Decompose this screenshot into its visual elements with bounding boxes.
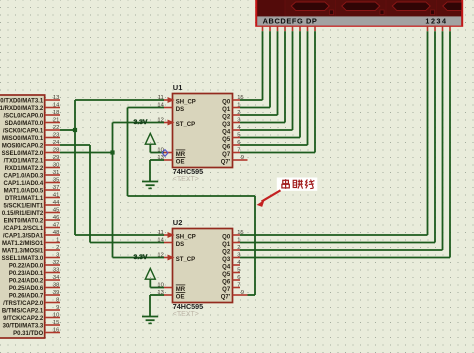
wire: ground to U1 OE pin 13 bbox=[150, 159, 164, 161]
wire: vertical down to U2 DS bbox=[89, 145, 91, 243]
svg-text:46: 46 bbox=[53, 215, 59, 221]
svg-text:/CAP1.3/SDA1: /CAP1.3/SDA1 bbox=[3, 233, 44, 239]
junction: ST_CP net bbox=[110, 150, 114, 154]
wire: 3.3V to U1 MR pin 10 bbox=[150, 152, 164, 154]
svg-text:3: 3 bbox=[237, 117, 240, 123]
wire: cascade horizontal at y=196 bbox=[128, 195, 256, 197]
svg-text:EINT0/MAT0.2: EINT0/MAT0.2 bbox=[4, 218, 44, 224]
svg-text:MISO0/MAT0.1: MISO0/MAT0.1 bbox=[2, 136, 44, 142]
wire: MCU pin 28 to ST_CP junction bbox=[60, 152, 113, 154]
svg-text:<TEXT>: <TEXT> bbox=[173, 311, 199, 318]
svg-text:1/RXD0/MAT3.2: 1/RXD0/MAT3.2 bbox=[0, 106, 44, 112]
wire: to U2 DS pin 14 bbox=[90, 242, 164, 244]
svg-text:31: 31 bbox=[53, 170, 59, 176]
wire: ST_CP vertical bus bbox=[112, 123, 114, 258]
wire: U1 Q7 to display segment pin bbox=[240, 31, 315, 152]
svg-text:5/SCK1/EINT1: 5/SCK1/EINT1 bbox=[4, 203, 44, 209]
svg-text:44: 44 bbox=[53, 200, 60, 206]
svg-text:2: 2 bbox=[56, 245, 59, 251]
svg-text:ST_CP: ST_CP bbox=[176, 257, 195, 263]
svg-text:7: 7 bbox=[237, 282, 240, 288]
svg-text:<TEXT>: <TEXT> bbox=[173, 176, 199, 183]
svg-text:MOSI0/CAP0.2: MOSI0/CAP0.2 bbox=[2, 143, 44, 149]
svg-text:74HC595: 74HC595 bbox=[173, 167, 203, 176]
wire: SH_CP vertical bus bbox=[74, 100, 76, 235]
U2 right pin names Q0..Q7 bbox=[221, 234, 231, 300]
svg-text:/TRST/CAP2.0: /TRST/CAP2.0 bbox=[3, 301, 44, 307]
blue marker on U1 MR pin bbox=[162, 150, 168, 157]
wire: U1 Q2 to display segment pin bbox=[240, 31, 278, 115]
svg-text:Q6: Q6 bbox=[222, 279, 231, 285]
shift register U2 74HC595 bbox=[173, 218, 233, 318]
MCU pin numbers 13,14,18,21,22,23,24,28,29,30,31,35,37,41,44,45,46,47,48,1,2,3,32,33,34,38,39,8,9,10,15,16 bbox=[53, 95, 60, 334]
wire: U1 Q6 to display segment pin bbox=[240, 31, 308, 145]
svg-text:Q3: Q3 bbox=[222, 257, 231, 263]
annotation label (chuan lian xian / series line) on white box bbox=[277, 178, 318, 191]
wire: U1 Q0 to display segment pin bbox=[240, 31, 263, 100]
wire: U1 DS pin 14 leftward (cascade net) bbox=[128, 107, 165, 109]
svg-text:3.3V: 3.3V bbox=[134, 254, 148, 261]
wire: cascade vertical at x=127.5 bbox=[127, 108, 129, 197]
svg-text:13: 13 bbox=[53, 95, 59, 101]
svg-text:33: 33 bbox=[53, 268, 59, 274]
wire: cascade to U2 Q7apos pin 9 bbox=[248, 294, 256, 296]
svg-text:SH_CP: SH_CP bbox=[176, 234, 196, 240]
svg-text:1234: 1234 bbox=[425, 17, 447, 26]
svg-text:6: 6 bbox=[237, 140, 240, 146]
MCU pin stubs (right side) bbox=[45, 100, 60, 333]
svg-text:DS: DS bbox=[176, 107, 184, 113]
ground symbol at U1 OE bbox=[142, 160, 158, 188]
svg-text:30/TDI/MAT3.3: 30/TDI/MAT3.3 bbox=[3, 323, 44, 329]
svg-text:Q6: Q6 bbox=[222, 144, 231, 150]
svg-text:MAT1.2/MISO1: MAT1.2/MISO1 bbox=[2, 241, 44, 247]
svg-text:Q7': Q7' bbox=[221, 294, 231, 300]
svg-text:OE: OE bbox=[176, 159, 185, 165]
U2 right pin stubs Q0-Q7, Q7apos bbox=[233, 235, 248, 295]
svg-text:39: 39 bbox=[53, 290, 59, 296]
svg-text:0.15/RI1/EINT2: 0.15/RI1/EINT2 bbox=[2, 211, 44, 217]
wire: cascade vertical at x=255 bbox=[254, 196, 256, 295]
wire: U1 Q3 to display segment pin bbox=[240, 31, 285, 122]
svg-text:Q2: Q2 bbox=[222, 249, 231, 255]
svg-text:47: 47 bbox=[53, 223, 59, 229]
svg-text:/SCL0/CAP0.0: /SCL0/CAP0.0 bbox=[4, 113, 44, 119]
U1 right pin stubs Q0-Q7, Q7apos bbox=[233, 100, 248, 160]
svg-text:DS: DS bbox=[176, 242, 184, 248]
svg-text:1: 1 bbox=[237, 102, 240, 108]
svg-text:74HC595: 74HC595 bbox=[173, 302, 203, 311]
svg-text:29: 29 bbox=[53, 155, 59, 161]
svg-text:9: 9 bbox=[241, 155, 244, 161]
display segment pin stubs A-G,DP bbox=[263, 26, 316, 31]
wire: MCU pin 24 rightward bbox=[60, 144, 90, 146]
svg-text:Q2: Q2 bbox=[222, 114, 231, 120]
svg-text:DTR1/MAT1.1: DTR1/MAT1.1 bbox=[5, 196, 44, 202]
U2 left pin numbers bbox=[157, 230, 164, 296]
svg-text:Q3: Q3 bbox=[222, 122, 231, 128]
wire: to U1 ST_CP pin 12 bbox=[113, 122, 165, 124]
wire: U2 Q0 to display digit pin bbox=[240, 31, 428, 235]
svg-text:0/TXD0/MAT3.1: 0/TXD0/MAT3.1 bbox=[0, 98, 44, 104]
MCU pin names (clipped at left edge) bbox=[0, 98, 44, 337]
svg-text:Q1: Q1 bbox=[222, 242, 231, 248]
svg-text:7: 7 bbox=[237, 147, 240, 153]
svg-text:32: 32 bbox=[53, 260, 59, 266]
svg-text:41: 41 bbox=[53, 193, 59, 199]
svg-text:Q0: Q0 bbox=[222, 99, 231, 105]
svg-text:2: 2 bbox=[237, 245, 240, 251]
svg-text:18: 18 bbox=[53, 110, 59, 116]
svg-text:OE: OE bbox=[176, 294, 185, 300]
svg-text:3: 3 bbox=[56, 253, 59, 259]
U1 left pin stubs 11,14,12,10,13 bbox=[164, 97, 175, 160]
svg-text:37: 37 bbox=[53, 185, 59, 191]
shift register U1 74HC595 bbox=[173, 83, 233, 183]
svg-text:9/TCK/CAP2.2: 9/TCK/CAP2.2 bbox=[3, 316, 44, 322]
svg-text:U2: U2 bbox=[173, 218, 183, 227]
svg-text:SH_CP: SH_CP bbox=[176, 99, 196, 105]
svg-text:Q7: Q7 bbox=[222, 287, 231, 293]
svg-text:CAP1.0/AD0.3: CAP1.0/AD0.3 bbox=[4, 173, 44, 179]
svg-text:CAP1.1/AD0.4: CAP1.1/AD0.4 bbox=[4, 181, 44, 187]
wire: MCU pin 22 to SH_CP junction bbox=[60, 129, 75, 131]
svg-text:P0.24/AD0.2: P0.24/AD0.2 bbox=[9, 278, 44, 284]
svg-text:3.3V: 3.3V bbox=[134, 119, 148, 126]
U1 right pin names Q0..Q7 bbox=[221, 99, 231, 165]
svg-text:1: 1 bbox=[56, 238, 59, 244]
svg-text:10: 10 bbox=[53, 313, 59, 319]
svg-text:P0.26/AD0.7: P0.26/AD0.7 bbox=[9, 293, 44, 299]
wire: U1 Q4 to display segment pin bbox=[240, 31, 293, 130]
svg-text:Q4: Q4 bbox=[222, 129, 231, 135]
U2 left pin stubs 11,14,12,10,13 bbox=[164, 232, 175, 295]
svg-text:5: 5 bbox=[237, 132, 240, 138]
wire: ground to U2 OE pin 13 bbox=[150, 294, 164, 296]
svg-text:3: 3 bbox=[237, 252, 240, 258]
wire: to U1 SH_CP pin 11 bbox=[75, 99, 164, 101]
svg-text:30: 30 bbox=[53, 163, 59, 169]
svg-text:P0.22/AD0.0: P0.22/AD0.0 bbox=[9, 263, 44, 269]
svg-text:Q5: Q5 bbox=[222, 272, 231, 278]
U1 left pin names SH_CP, DS, ST_CP, MR, OE bbox=[176, 99, 196, 165]
display digit pin stubs 1-4 bbox=[428, 26, 451, 31]
svg-text:35: 35 bbox=[53, 178, 59, 184]
annotation arrow pointing to cascade wire corner bbox=[257, 190, 281, 207]
svg-text:Q7: Q7 bbox=[222, 152, 231, 158]
U1 left pin numbers bbox=[157, 95, 164, 161]
svg-text:MAT1.3/MOSI1: MAT1.3/MOSI1 bbox=[2, 248, 44, 254]
wire: U1 Q1 to display segment pin bbox=[240, 31, 270, 107]
svg-text:Q0: Q0 bbox=[222, 234, 231, 240]
U2 left pin names SH_CP, DS, ST_CP, MR, OE bbox=[176, 234, 196, 300]
power symbol 3.3V at U2 MR bbox=[145, 268, 155, 287]
svg-text:Q1: Q1 bbox=[222, 107, 231, 113]
wire: U2 Q2 to display digit pin bbox=[240, 31, 443, 250]
power symbol 3.3V at U1 MR bbox=[145, 133, 155, 152]
svg-text:6: 6 bbox=[237, 275, 240, 281]
svg-text:SDA0/MAT0.0: SDA0/MAT0.0 bbox=[5, 121, 44, 127]
wire: to U2 SH_CP pin 11 bbox=[75, 234, 164, 236]
U1 right pin numbers 15,1,2,3,4,5,6,7,9 bbox=[237, 95, 244, 161]
svg-text:38: 38 bbox=[53, 283, 59, 289]
svg-text:8: 8 bbox=[56, 298, 59, 304]
svg-text:34: 34 bbox=[53, 275, 60, 281]
svg-text:U1: U1 bbox=[173, 83, 183, 92]
wire: U2 Q3 to display digit pin bbox=[240, 31, 450, 257]
svg-text:/CAP1.2/SCL1: /CAP1.2/SCL1 bbox=[4, 226, 44, 232]
svg-text:MAT1.0/AD0.5: MAT1.0/AD0.5 bbox=[4, 188, 44, 194]
U2 right pin numbers 15,1,2,3,4,5,6,7,9 bbox=[237, 230, 244, 296]
wire: 3.3V to U2 MR pin 10 bbox=[150, 287, 164, 289]
svg-text:SSEL0/MAT2.0: SSEL0/MAT2.0 bbox=[2, 151, 44, 157]
svg-text:45: 45 bbox=[53, 208, 59, 214]
junction: SH_CP net bbox=[73, 128, 77, 132]
svg-text:B/TMS/CAP2.1: B/TMS/CAP2.1 bbox=[2, 308, 44, 314]
svg-text:16: 16 bbox=[53, 328, 59, 334]
svg-text:21: 21 bbox=[53, 118, 59, 124]
4-digit 7-segment display DISP1 (cut off at top edge) bbox=[256, 0, 474, 26]
svg-text:28: 28 bbox=[53, 148, 59, 154]
svg-text:48: 48 bbox=[53, 230, 59, 236]
wire: to U2 ST_CP pin 12 bbox=[113, 257, 165, 259]
svg-text:SSEL1/MAT3.0: SSEL1/MAT3.0 bbox=[2, 256, 44, 262]
svg-text:15: 15 bbox=[53, 320, 59, 326]
svg-text:P0.25/AD0.6: P0.25/AD0.6 bbox=[9, 286, 44, 292]
svg-text:P0.23/AD0.1: P0.23/AD0.1 bbox=[9, 271, 44, 277]
svg-text:2: 2 bbox=[237, 110, 240, 116]
svg-text:RXD1/MAT2.2: RXD1/MAT2.2 bbox=[5, 166, 44, 172]
svg-text:/SCK0/CAP0.1: /SCK0/CAP0.1 bbox=[3, 128, 44, 134]
svg-text:5: 5 bbox=[237, 267, 240, 273]
svg-text:Q4: Q4 bbox=[222, 264, 231, 270]
svg-text:23: 23 bbox=[53, 133, 59, 139]
svg-text:1: 1 bbox=[237, 237, 240, 243]
svg-text:ST_CP: ST_CP bbox=[176, 122, 195, 128]
svg-text:24: 24 bbox=[53, 140, 60, 146]
svg-text:22: 22 bbox=[53, 125, 59, 131]
wire: U2 Q1 to display digit pin bbox=[240, 31, 435, 242]
svg-text:Q7': Q7' bbox=[221, 159, 231, 165]
ground symbol at U2 OE bbox=[142, 295, 158, 323]
svg-text:9: 9 bbox=[56, 305, 59, 311]
microcontroller U? (LPC213x, partially cut off at left) bbox=[0, 95, 45, 338]
svg-text:/TXD1/MAT2.1: /TXD1/MAT2.1 bbox=[4, 158, 44, 164]
wire: U1 Q5 to display segment pin bbox=[240, 31, 300, 137]
svg-text:9: 9 bbox=[241, 290, 244, 296]
svg-text:14: 14 bbox=[53, 103, 60, 109]
svg-text:ABCDEFG DP: ABCDEFG DP bbox=[263, 17, 318, 26]
svg-text:Q5: Q5 bbox=[222, 137, 231, 143]
svg-text:P0.31/TDO: P0.31/TDO bbox=[13, 331, 43, 337]
